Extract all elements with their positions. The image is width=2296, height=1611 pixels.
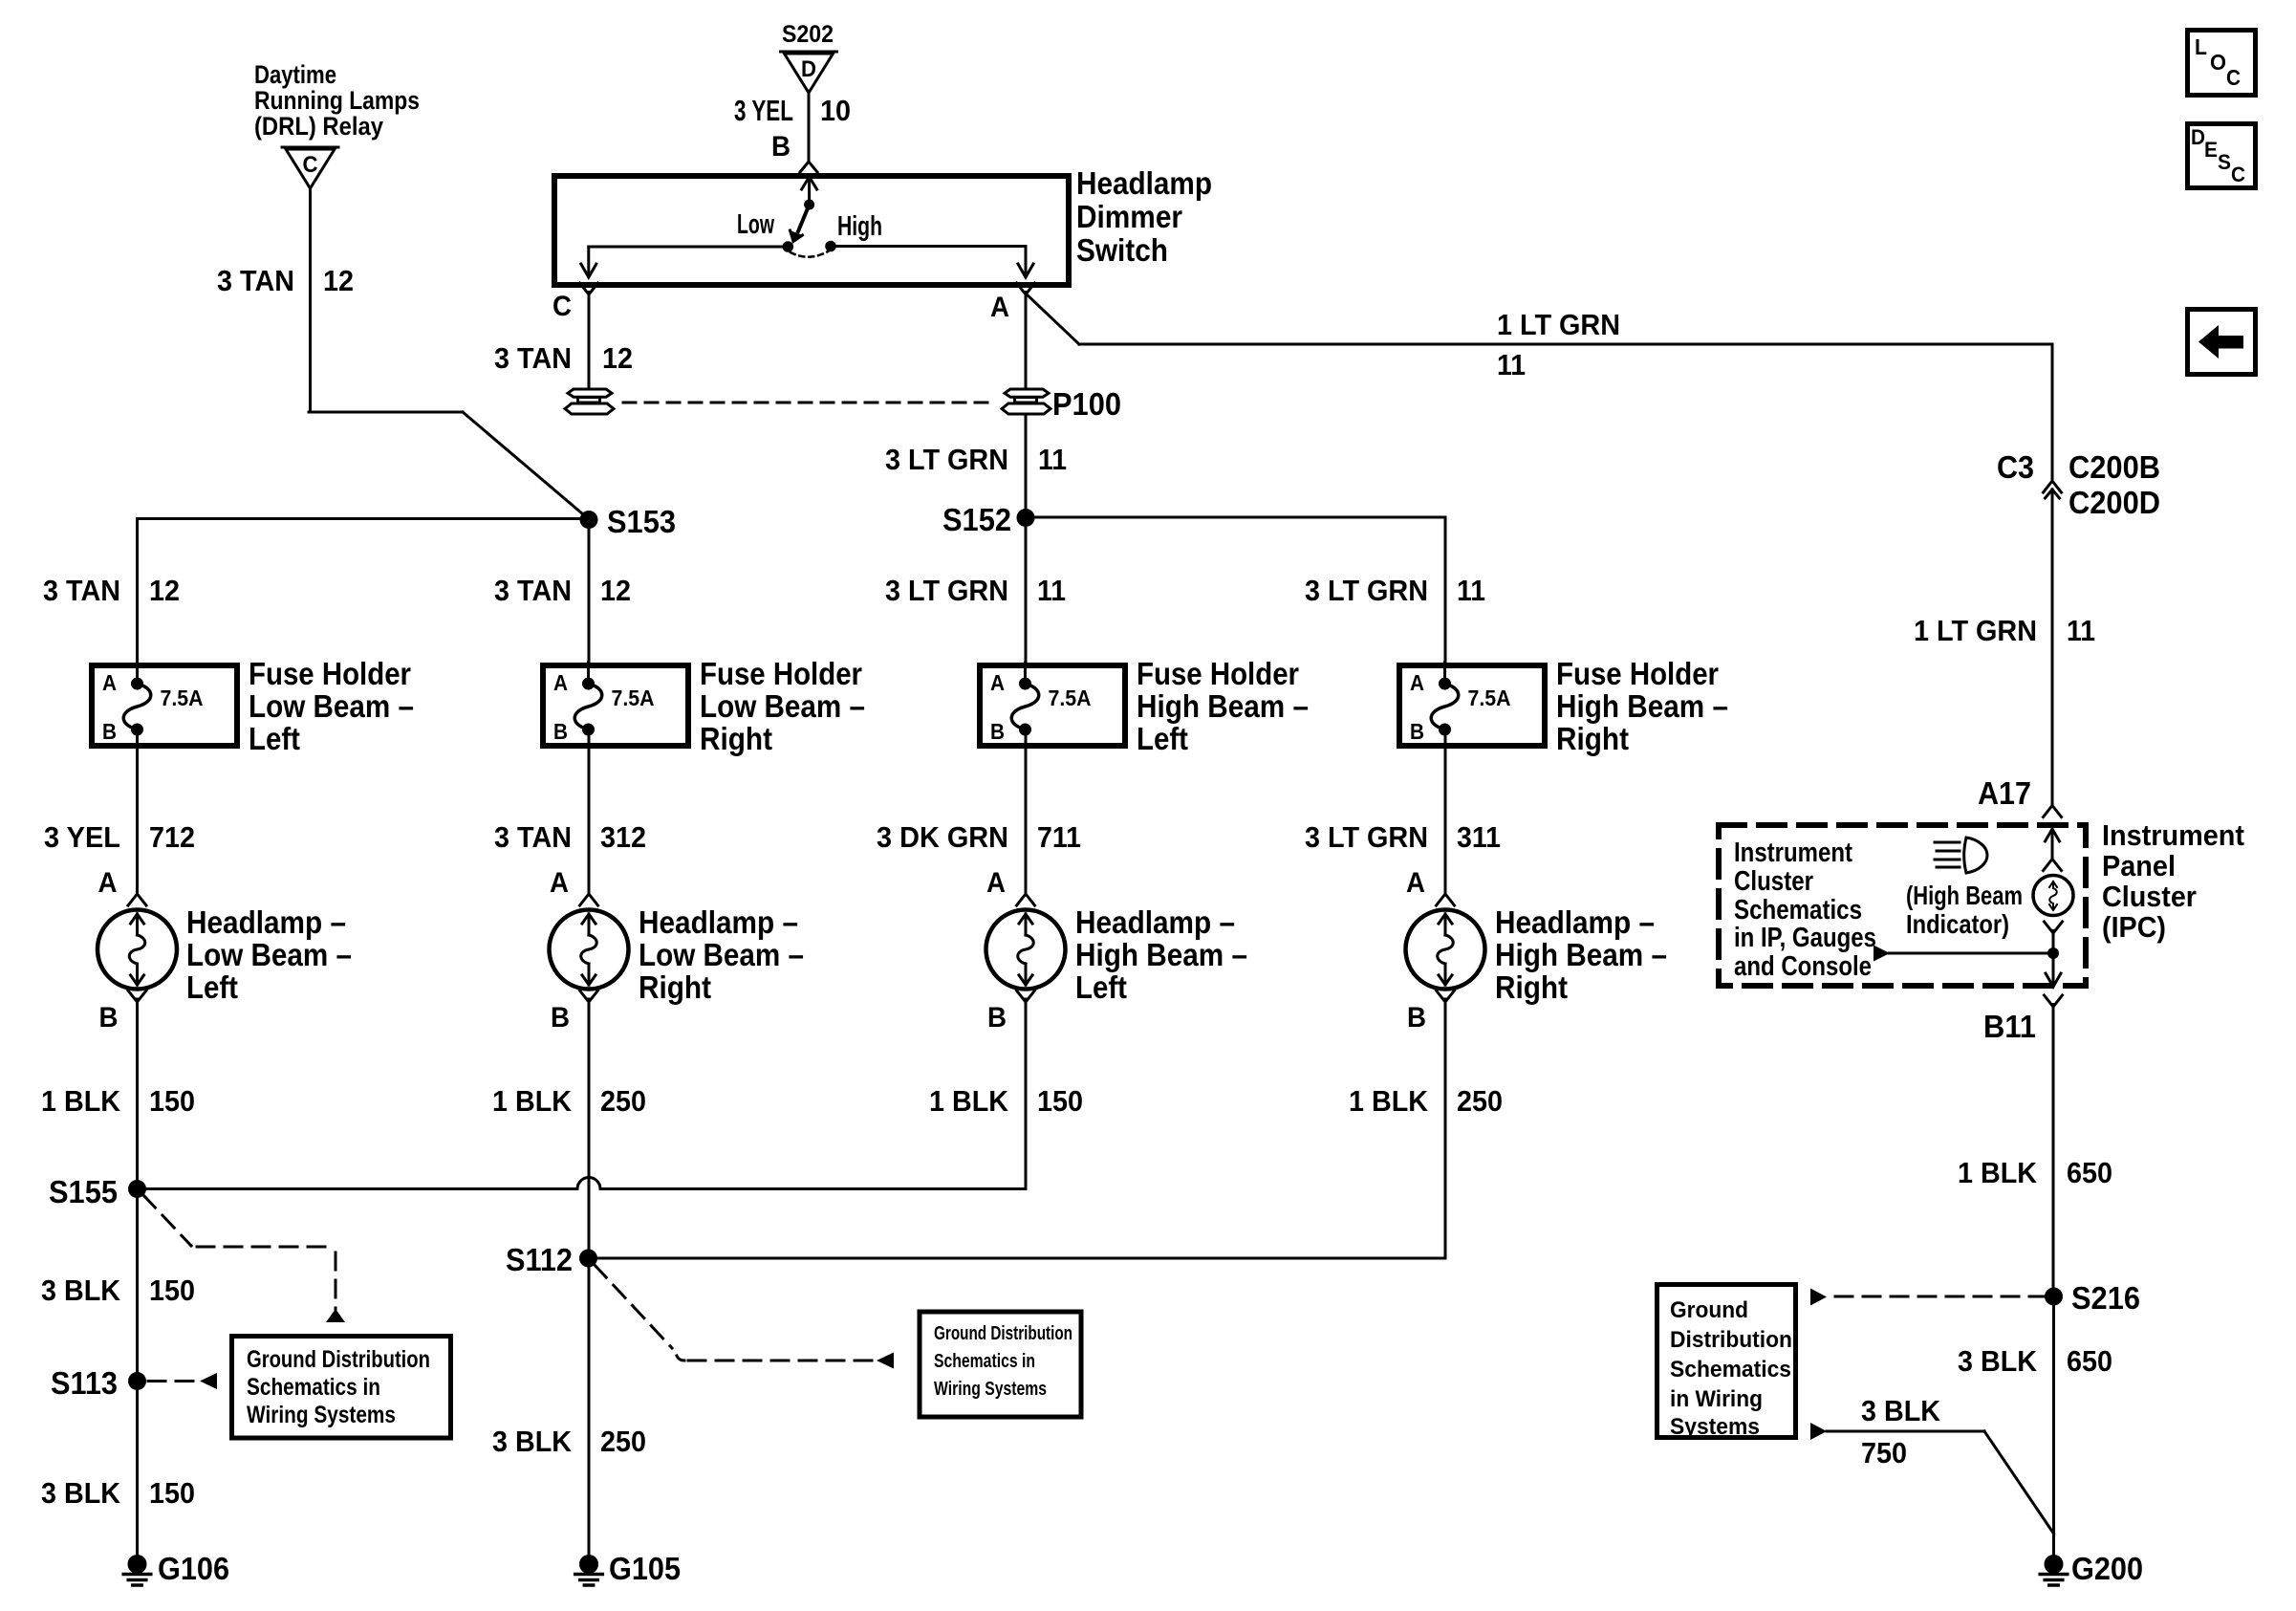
IPC wiring: bulb to B11 with junction — [1874, 922, 2063, 987]
svg-text:3 LT GRN: 3 LT GRN — [1305, 820, 1428, 854]
svg-text:S112: S112 — [506, 1242, 573, 1277]
wire S153 down to fuse low beam right — [494, 520, 631, 666]
svg-text:3 YEL: 3 YEL — [44, 820, 120, 854]
switch lever toward Low with arrowhead — [798, 205, 810, 231]
headlamp low beam left — [97, 867, 352, 1034]
svg-text:3 LT GRN: 3 LT GRN — [885, 443, 1008, 476]
svg-text:O: O — [2210, 50, 2226, 75]
svg-text:3 BLK: 3 BLK — [1861, 1394, 1941, 1427]
svg-text:7.5A: 7.5A — [1468, 686, 1511, 710]
svg-text:3 BLK: 3 BLK — [41, 1476, 121, 1510]
A17 connector chevron — [2044, 806, 2062, 817]
splice S113 — [51, 1365, 146, 1401]
inline connector P100 left half — [565, 389, 614, 414]
svg-text:Fuse Holder: Fuse Holder — [1137, 656, 1299, 691]
svg-text:B: B — [551, 1002, 570, 1034]
svg-text:B: B — [1410, 719, 1424, 744]
svg-text:Panel: Panel — [2102, 849, 2176, 882]
svg-text:Low: Low — [737, 209, 774, 240]
trunk corner down to C200 — [2051, 344, 2054, 479]
svg-text:711: 711 — [1037, 820, 1081, 854]
ground G200 — [2040, 1551, 2143, 1586]
svg-text:A17: A17 — [1978, 775, 2031, 811]
internal output line to A with down arrow — [836, 245, 1026, 248]
svg-text:Fuse Holder: Fuse Holder — [1556, 656, 1719, 691]
svg-text:C: C — [2231, 163, 2245, 186]
wire S153 left branch to fuse low beam left — [43, 519, 589, 666]
wire S152 down to fuse high beam left — [885, 518, 1066, 666]
svg-text:Running Lamps: Running Lamps — [254, 86, 420, 115]
dashed reference S155 to ground distribution box — [143, 1195, 345, 1322]
svg-text:B: B — [771, 131, 791, 163]
svg-text:312: 312 — [600, 820, 646, 854]
svg-text:3 BLK: 3 BLK — [41, 1274, 121, 1307]
svg-text:12: 12 — [600, 574, 631, 607]
svg-text:150: 150 — [149, 1274, 195, 1307]
pin B connector chevron — [800, 162, 817, 172]
svg-text:(IPC): (IPC) — [2102, 910, 2166, 944]
svg-text:650: 650 — [2067, 1344, 2112, 1378]
svg-text:(High Beam: (High Beam — [1906, 881, 2023, 910]
ground distribution schematics box left — [232, 1337, 451, 1439]
splice S152 — [942, 502, 1035, 537]
svg-text:B11: B11 — [1983, 1009, 2036, 1044]
splice S216 — [2045, 1280, 2140, 1316]
svg-text:B: B — [987, 1002, 1007, 1034]
svg-text:1 BLK: 1 BLK — [1958, 1156, 2038, 1189]
connector C200B/C200D — [1997, 449, 2160, 520]
svg-text:1 BLK: 1 BLK — [41, 1084, 121, 1118]
svg-text:11: 11 — [1457, 574, 1485, 607]
connector S202 triangle (D) — [781, 21, 837, 93]
svg-text:Ground Distribution: Ground Distribution — [247, 1346, 430, 1373]
svg-text:A: A — [1406, 867, 1425, 899]
svg-text:B: B — [990, 719, 1005, 744]
dashed reference box to S216 with arrow — [1810, 1289, 2045, 1306]
svg-text:11: 11 — [1038, 443, 1067, 476]
svg-text:Indicator): Indicator) — [1906, 909, 2009, 939]
wire from A diagonal to 1 LT GRN trunk — [1026, 294, 2052, 479]
svg-text:(DRL) Relay: (DRL) Relay — [254, 112, 383, 141]
wire B11 down to S216 — [1958, 1005, 2112, 1297]
svg-text:E: E — [2204, 138, 2218, 162]
ground distribution schematics box middle — [920, 1312, 1081, 1417]
connector DRL triangle (C) — [282, 147, 338, 188]
svg-text:G200: G200 — [2071, 1551, 2143, 1586]
ground G106 — [123, 1551, 229, 1586]
svg-text:12: 12 — [149, 574, 180, 607]
svg-text:Headlamp –: Headlamp – — [186, 904, 346, 940]
svg-text:A: A — [1410, 670, 1424, 695]
headlamp dimmer switch box — [554, 165, 1212, 285]
svg-text:and Console: and Console — [1734, 951, 1872, 982]
svg-text:D: D — [2191, 125, 2205, 149]
ground G105 — [575, 1551, 681, 1586]
svg-text:Left: Left — [1137, 721, 1188, 756]
svg-text:Schematics: Schematics — [1670, 1357, 1791, 1382]
svg-text:Left: Left — [186, 969, 238, 1005]
splice S153 — [580, 504, 677, 539]
svg-text:Switch: Switch — [1076, 232, 1168, 268]
svg-text:A: A — [102, 670, 117, 695]
IPC wiring: A17 input arrow — [2044, 829, 2062, 871]
dimmer switch internal: B input arrow and pivot — [581, 177, 1033, 277]
svg-text:3 TAN: 3 TAN — [217, 264, 294, 297]
svg-text:C3: C3 — [1997, 449, 2034, 485]
svg-text:Cluster: Cluster — [2102, 880, 2197, 913]
svg-text:S202: S202 — [782, 21, 834, 48]
svg-text:11: 11 — [2067, 614, 2095, 647]
pin C connector below dimmer — [552, 283, 598, 322]
svg-text:Fuse Holder: Fuse Holder — [700, 656, 862, 691]
wire S155 down to S113 — [41, 1189, 195, 1382]
wire 3 BLK 750 from box to G200 — [1810, 1394, 2054, 1534]
svg-text:750: 750 — [1861, 1436, 1907, 1469]
svg-text:A: A — [990, 670, 1005, 695]
fuse holder low beam left 7.5A — [92, 656, 414, 756]
svg-text:311: 311 — [1457, 820, 1501, 854]
wire S152 right branch to fuse high beam right — [1026, 517, 1485, 665]
svg-text:3 TAN: 3 TAN — [43, 574, 120, 607]
svg-text:Fuse Holder: Fuse Holder — [249, 656, 411, 691]
svg-text:S155: S155 — [49, 1174, 118, 1209]
svg-text:P100: P100 — [1052, 386, 1121, 422]
svg-text:Instrument: Instrument — [2102, 818, 2244, 852]
svg-text:A: A — [550, 867, 569, 899]
svg-text:Headlamp –: Headlamp – — [1075, 904, 1235, 940]
svg-text:1 BLK: 1 BLK — [492, 1084, 573, 1118]
svg-text:150: 150 — [1037, 1084, 1083, 1118]
svg-text:S152: S152 — [942, 502, 1011, 537]
svg-text:12: 12 — [602, 341, 633, 375]
IPC internal note text — [1734, 838, 1876, 982]
wire S112 ground bus to headlamp4 column — [589, 1257, 1445, 1260]
wire S113 down to G106 — [41, 1382, 195, 1557]
svg-text:High Beam –: High Beam – — [1495, 937, 1667, 972]
svg-text:S216: S216 — [2071, 1280, 2140, 1316]
svg-text:C200B: C200B — [2069, 449, 2160, 485]
wire headlamp2 down to S112 — [492, 999, 646, 1258]
svg-text:150: 150 — [149, 1476, 195, 1510]
svg-text:Right: Right — [700, 721, 772, 756]
dashed reference S113 to box with arrow — [148, 1373, 217, 1389]
Low contact dot — [783, 241, 794, 252]
svg-text:C: C — [2226, 65, 2241, 90]
svg-text:Schematics in: Schematics in — [934, 1351, 1035, 1372]
wire S216 down to G200 — [1958, 1296, 2112, 1557]
svg-text:3 TAN: 3 TAN — [494, 341, 572, 375]
svg-text:7.5A: 7.5A — [612, 686, 655, 710]
inline connector P100 right half — [1002, 386, 1121, 422]
svg-text:G106: G106 — [158, 1551, 229, 1586]
wire to instrument cluster schematics with right arrow — [1889, 952, 2053, 955]
fuse holder high beam right 7.5A — [1399, 656, 1728, 756]
svg-text:3 YEL: 3 YEL — [734, 94, 793, 127]
svg-text:3 TAN: 3 TAN — [494, 574, 572, 607]
LOC legend box — [2188, 31, 2256, 96]
svg-text:3 BLK: 3 BLK — [1958, 1344, 2038, 1378]
svg-text:3 LT GRN: 3 LT GRN — [1305, 574, 1428, 607]
svg-text:Low Beam –: Low Beam – — [639, 937, 804, 972]
svg-text:L: L — [2195, 34, 2207, 59]
pin A connector below dimmer — [990, 283, 1035, 323]
svg-text:7.5A: 7.5A — [1049, 686, 1092, 710]
svg-text:Right: Right — [639, 969, 711, 1005]
ground distribution box right — [1657, 1285, 1796, 1441]
svg-text:Headlamp –: Headlamp – — [639, 904, 798, 940]
svg-text:150: 150 — [149, 1084, 195, 1118]
svg-text:High: High — [837, 211, 882, 242]
svg-text:Low Beam –: Low Beam – — [186, 937, 352, 972]
wire fuse1 to headlamp low beam left — [44, 729, 195, 893]
svg-text:Headlamp –: Headlamp – — [1495, 904, 1655, 940]
wire fuse4 to headlamp high beam right — [1305, 729, 1501, 893]
dashed reference S112 to right ground box — [595, 1265, 894, 1369]
svg-text:B: B — [1407, 1002, 1426, 1034]
svg-text:High Beam –: High Beam – — [1556, 688, 1728, 724]
pin B11 connector — [1983, 995, 2063, 1044]
svg-text:1 LT GRN: 1 LT GRN — [1497, 308, 1620, 341]
svg-text:650: 650 — [2067, 1156, 2112, 1189]
svg-text:Cluster: Cluster — [1734, 866, 1813, 897]
internal output line to C with down arrow — [589, 246, 782, 249]
svg-text:Dimmer: Dimmer — [1076, 199, 1182, 234]
splice S112 — [506, 1242, 597, 1277]
svg-text:A: A — [98, 867, 118, 899]
svg-text:A: A — [990, 292, 1009, 323]
svg-text:Systems: Systems — [1670, 1414, 1760, 1440]
svg-text:Wiring Systems: Wiring Systems — [934, 1379, 1047, 1400]
svg-text:3 BLK: 3 BLK — [492, 1425, 573, 1458]
svg-text:712: 712 — [149, 820, 195, 854]
svg-text:High Beam –: High Beam – — [1137, 688, 1309, 724]
svg-text:S113: S113 — [51, 1365, 118, 1401]
fuse holder low beam right 7.5A — [543, 656, 865, 756]
svg-text:Wiring Systems: Wiring Systems — [247, 1402, 396, 1428]
svg-text:250: 250 — [600, 1084, 646, 1118]
svg-text:G105: G105 — [609, 1551, 681, 1586]
wire C terminal down to P100 — [494, 293, 633, 389]
svg-text:Left: Left — [1075, 969, 1127, 1005]
headlamp high beam right — [1406, 867, 1668, 1034]
wire fuse2 to headlamp low beam right — [494, 729, 646, 893]
High contact dot — [825, 241, 836, 252]
svg-text:1 BLK: 1 BLK — [1349, 1084, 1429, 1118]
wire headlamp1 to S155 — [41, 999, 195, 1189]
svg-text:Instrument: Instrument — [1734, 838, 1852, 868]
wire DRL to S153 — [217, 188, 589, 519]
svg-text:3 DK GRN: 3 DK GRN — [877, 820, 1008, 854]
wire DRL relay branch — [254, 60, 420, 141]
fuse holder high beam left 7.5A — [980, 656, 1309, 756]
svg-text:Schematics: Schematics — [1734, 895, 1862, 925]
wire S155 ground bus to headlamp3 with hop over col2 — [138, 1178, 1027, 1189]
svg-text:B: B — [99, 1002, 119, 1034]
dashed pairing line of P100 — [623, 402, 995, 404]
wire headlamp3 down to S155 bus — [929, 999, 1083, 1189]
indicator bulb in IPC — [2033, 876, 2073, 916]
svg-text:250: 250 — [1457, 1084, 1503, 1118]
wire S202 to dimmer switch B — [734, 92, 851, 172]
svg-text:A: A — [553, 670, 568, 695]
wire headlamp4 down to S112 bus — [1349, 999, 1503, 1258]
headlamp low beam right — [550, 867, 805, 1034]
svg-text:11: 11 — [1037, 574, 1066, 607]
svg-text:1 BLK: 1 BLK — [929, 1084, 1009, 1118]
svg-text:High Beam –: High Beam – — [1075, 937, 1247, 972]
svg-text:S153: S153 — [607, 504, 676, 539]
svg-text:12: 12 — [323, 264, 354, 297]
svg-text:11: 11 — [1497, 348, 1526, 381]
svg-text:B: B — [102, 719, 117, 744]
junction dot in IPC — [2047, 947, 2059, 959]
svg-text:Right: Right — [1556, 721, 1629, 756]
splice S155 — [49, 1174, 146, 1209]
back arrow legend box — [2188, 310, 2256, 375]
svg-text:Ground Distribution: Ground Distribution — [934, 1323, 1072, 1344]
svg-text:1 LT GRN: 1 LT GRN — [1914, 614, 2037, 647]
svg-text:C: C — [303, 152, 318, 178]
wire S112 down to G105 — [492, 1258, 646, 1557]
high beam indicator caption — [1906, 881, 2023, 939]
instrument panel cluster dashed box — [1719, 818, 2244, 986]
svg-text:Low Beam –: Low Beam – — [249, 688, 414, 724]
down arrow at IPC box bottom — [2046, 973, 2061, 987]
dashed arc between Low and High — [791, 251, 828, 257]
svg-text:250: 250 — [600, 1425, 646, 1458]
high beam indicator icon — [1935, 838, 1987, 873]
svg-text:Ground: Ground — [1670, 1297, 1748, 1323]
svg-text:3 TAN: 3 TAN — [494, 820, 572, 854]
svg-text:D: D — [801, 56, 816, 82]
svg-text:in IP, Gauges: in IP, Gauges — [1734, 923, 1876, 953]
svg-text:S: S — [2218, 150, 2231, 174]
svg-text:Right: Right — [1495, 969, 1568, 1005]
svg-text:A: A — [986, 867, 1006, 899]
headlamp high beam left — [986, 867, 1248, 1034]
svg-text:Low Beam –: Low Beam – — [700, 688, 865, 724]
svg-text:3 LT GRN: 3 LT GRN — [885, 574, 1008, 607]
wire A terminal down through P100 to S152 — [885, 293, 1067, 518]
svg-text:10: 10 — [820, 94, 851, 127]
DESC legend box — [2188, 124, 2256, 188]
svg-text:Headlamp: Headlamp — [1076, 165, 1212, 201]
svg-text:Left: Left — [249, 721, 300, 756]
wire C200D down to IPC A17 — [1914, 490, 2095, 817]
svg-text:Distribution: Distribution — [1670, 1327, 1792, 1353]
svg-text:in Wiring: in Wiring — [1670, 1386, 1763, 1412]
svg-text:7.5A: 7.5A — [161, 686, 204, 710]
svg-text:Daytime: Daytime — [254, 60, 336, 89]
svg-text:C200D: C200D — [2069, 485, 2160, 520]
svg-text:B: B — [553, 719, 568, 744]
svg-text:C: C — [552, 291, 572, 322]
wire fuse3 to headlamp high beam left — [877, 729, 1081, 893]
svg-text:Schematics in: Schematics in — [247, 1374, 380, 1401]
